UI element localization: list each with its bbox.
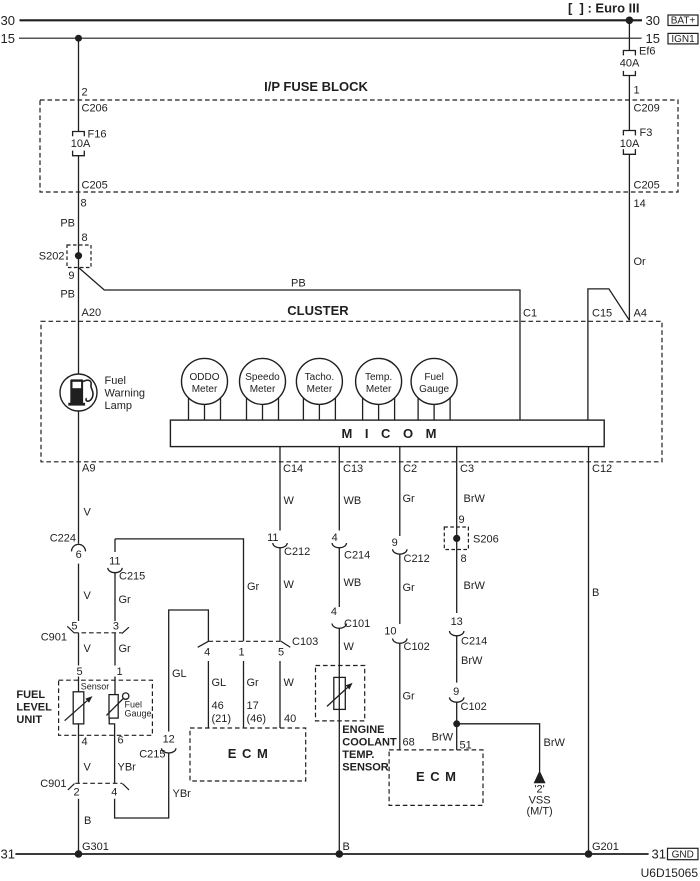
wire Or F3 to A4 (628, 154, 630, 320)
svg-text:A4: A4 (634, 308, 647, 320)
svg-text:U6D15065: U6D15065 (641, 866, 699, 880)
svg-text:Ef6: Ef6 (639, 46, 656, 58)
svg-text:Gr: Gr (119, 643, 132, 655)
svg-text:C1: C1 (523, 308, 537, 320)
svg-text:15: 15 (646, 31, 660, 46)
fuel level unit box (59, 680, 153, 735)
svg-text:GL: GL (172, 668, 187, 680)
svg-text:W: W (284, 579, 295, 591)
svg-text:3: 3 (113, 621, 119, 633)
svg-text:Gr: Gr (119, 594, 132, 606)
svg-text:10A: 10A (71, 138, 91, 150)
fuel warning lamp (60, 374, 97, 411)
meter ODDO (182, 358, 228, 404)
svg-text:C212: C212 (284, 546, 310, 558)
MICOM box (170, 420, 604, 447)
svg-text:(21): (21) (212, 713, 232, 725)
svg-text:C215: C215 (119, 571, 145, 583)
wire Ef6 to F3 (628, 76, 630, 131)
svg-text:F3: F3 (640, 127, 653, 139)
svg-text:Gr: Gr (247, 677, 260, 689)
terminal IGN1 (668, 33, 698, 44)
svg-text:C214: C214 (461, 636, 487, 648)
svg-text:C101: C101 (344, 618, 370, 630)
svg-text:VSS: VSS (529, 795, 551, 807)
node on bus 30 (626, 17, 634, 25)
svg-text:PB: PB (60, 218, 75, 230)
svg-text:C209: C209 (634, 103, 660, 115)
svg-text:BrW: BrW (461, 655, 483, 667)
svg-text:30: 30 (1, 13, 15, 28)
node on bus 15 (75, 35, 82, 42)
svg-text:31: 31 (1, 847, 15, 862)
svg-text:1: 1 (238, 646, 244, 658)
svg-text:C224: C224 (50, 532, 76, 544)
svg-text:5: 5 (76, 666, 82, 678)
terminal GND (668, 848, 699, 859)
svg-text:Or: Or (634, 256, 647, 268)
bus 15 (19, 37, 642, 39)
wire A4 to C15 to MICOM (588, 289, 630, 420)
svg-text:9: 9 (459, 514, 465, 526)
svg-text:C205: C205 (634, 180, 660, 192)
svg-text:C102: C102 (461, 701, 487, 713)
svg-text:Temp.: Temp. (365, 372, 392, 383)
svg-text:40: 40 (284, 713, 296, 725)
node G301 (75, 850, 83, 858)
svg-text:17: 17 (247, 700, 259, 712)
svg-text:C215: C215 (139, 749, 165, 761)
I/P fuse block box (40, 100, 678, 192)
svg-text:30: 30 (646, 13, 660, 28)
svg-text:10: 10 (384, 625, 396, 637)
svg-text:Gauge: Gauge (125, 709, 152, 719)
svg-text:V: V (84, 762, 92, 774)
svg-text:8: 8 (81, 198, 87, 210)
svg-text:Fuel: Fuel (105, 375, 126, 387)
svg-text:C901: C901 (41, 632, 67, 644)
node G201 (585, 850, 593, 858)
svg-text:V: V (84, 507, 92, 519)
svg-text:YBr: YBr (173, 788, 192, 800)
svg-text:C13: C13 (343, 463, 363, 475)
meter legs (189, 398, 451, 420)
wire F16 to A20 (78, 156, 80, 374)
connector C901 bottom (75, 782, 122, 784)
svg-text:A9: A9 (82, 463, 95, 475)
wire IGN1 to F16 (78, 38, 80, 131)
wire Gr into ECM pin 17 (243, 661, 245, 728)
wire C12/B MICOM to G201 (588, 447, 590, 854)
svg-text:Tacho.: Tacho. (305, 372, 334, 383)
wire Gr C215 to C103 pin1 (114, 539, 116, 695)
svg-text:LEVEL: LEVEL (16, 702, 52, 714)
svg-text:Gauge: Gauge (419, 384, 449, 395)
svg-text:4: 4 (204, 646, 210, 658)
svg-text:IGN1: IGN1 (671, 34, 695, 45)
svg-text:C205: C205 (82, 180, 108, 192)
splice S206 (444, 527, 468, 550)
svg-text:WB: WB (344, 577, 362, 589)
svg-text:S202: S202 (39, 251, 65, 263)
meter Temp (356, 358, 402, 404)
svg-text:C212: C212 (404, 553, 430, 565)
svg-text:1: 1 (116, 666, 122, 678)
svg-text:9: 9 (453, 686, 459, 698)
svg-text:Gr: Gr (403, 582, 416, 594)
svg-text:11: 11 (109, 555, 120, 567)
svg-text:BrW: BrW (432, 731, 454, 743)
svg-text:Warning: Warning (105, 388, 146, 400)
svg-text:ODDO: ODDO (190, 372, 220, 383)
svg-text:6: 6 (118, 735, 124, 747)
svg-text:W: W (284, 495, 295, 507)
svg-text:C12: C12 (592, 463, 612, 475)
svg-text:Gr: Gr (247, 581, 260, 593)
ECT sensor box (316, 666, 365, 721)
svg-text:V: V (84, 590, 92, 602)
bus 30 (20, 19, 643, 21)
wire A9/V lamp to sensor (78, 411, 80, 692)
svg-text:GL: GL (212, 677, 227, 689)
ECM box left (190, 728, 306, 781)
svg-text:E C M: E C M (416, 769, 456, 784)
connector C901 top (74, 632, 122, 634)
svg-text:FUEL: FUEL (16, 689, 45, 701)
svg-text:Meter: Meter (250, 384, 276, 395)
svg-text:C2: C2 (403, 463, 417, 475)
svg-text:Meter: Meter (366, 384, 392, 395)
svg-text:C206: C206 (82, 103, 108, 115)
wire PB branch to C1 (79, 268, 521, 421)
ECM box right (389, 750, 483, 806)
svg-text:11: 11 (267, 532, 278, 544)
svg-text:9: 9 (392, 537, 398, 549)
svg-text:1: 1 (634, 85, 640, 97)
svg-text:13: 13 (451, 616, 463, 628)
svg-text:Gr: Gr (403, 493, 416, 505)
svg-text:F16: F16 (88, 129, 107, 141)
svg-text:C15: C15 (592, 308, 612, 320)
wire C2/Gr MICOM to ECM pin 68 (399, 447, 401, 750)
svg-text:2: 2 (82, 87, 88, 99)
svg-text:PB: PB (291, 278, 306, 290)
svg-text:8: 8 (82, 232, 88, 244)
svg-text:2: 2 (73, 787, 79, 799)
svg-text:C214: C214 (344, 550, 370, 562)
wire C14/W MICOM to ECM pin 40 (279, 447, 281, 728)
svg-text:8: 8 (461, 553, 467, 565)
svg-text:31: 31 (652, 847, 666, 862)
svg-text:C901: C901 (40, 778, 66, 790)
svg-text:Sensor: Sensor (81, 681, 110, 691)
svg-text:4: 4 (332, 532, 338, 544)
wire GL C103 pin4 to C215-12 (169, 610, 209, 732)
svg-text:V: V (84, 643, 92, 655)
svg-text:BrW: BrW (464, 580, 486, 592)
svg-text:46: 46 (212, 700, 224, 712)
splice S202 (67, 245, 91, 268)
svg-text:G301: G301 (82, 841, 109, 853)
svg-text:UNIT: UNIT (16, 714, 42, 726)
svg-text:Lamp: Lamp (105, 400, 133, 412)
svg-text:ENGINE: ENGINE (342, 724, 384, 736)
svg-text:YBr: YBr (118, 762, 137, 774)
svg-text:PB: PB (60, 289, 75, 301)
fuel gauge symbol (109, 695, 118, 719)
svg-text:5: 5 (278, 646, 284, 658)
svg-text:A20: A20 (82, 307, 102, 319)
cluster box (41, 321, 662, 462)
sensor resistor (73, 692, 84, 724)
svg-text:E C M: E C M (228, 746, 268, 761)
bus 31 (15, 853, 648, 855)
svg-text:6: 6 (76, 549, 82, 561)
svg-text:Meter: Meter (192, 384, 218, 395)
wire C3/BrW MICOM to ECM pin 51 (456, 447, 458, 750)
svg-text:B: B (84, 815, 91, 827)
svg-text:C102: C102 (404, 641, 430, 653)
svg-text:B: B (592, 587, 599, 599)
svg-text:(46): (46) (247, 713, 267, 725)
svg-text:W: W (344, 641, 355, 653)
svg-text:40A: 40A (620, 58, 640, 70)
svg-text:B: B (343, 841, 350, 853)
svg-text:68: 68 (403, 736, 415, 748)
connector C103 (208, 640, 281, 642)
wire YBr U-link gauge to C215-12 (109, 718, 169, 818)
svg-text:BrW: BrW (464, 493, 486, 505)
wire BrW to VSS (457, 724, 540, 772)
svg-text:G201: G201 (592, 841, 619, 853)
svg-text:I/P FUSE BLOCK: I/P FUSE BLOCK (264, 79, 368, 94)
node B/ECT ground (336, 850, 344, 858)
meter Speedo (240, 358, 286, 404)
svg-text:BrW: BrW (544, 737, 566, 749)
svg-text:CLUSTER: CLUSTER (287, 303, 349, 318)
svg-text:Meter: Meter (307, 384, 333, 395)
svg-text:[ ] : Euro III: [ ] : Euro III (568, 1, 640, 16)
svg-text:10A: 10A (620, 138, 640, 150)
svg-text:Gr: Gr (403, 691, 416, 703)
meter Tacho (296, 358, 342, 404)
terminal BAT+ (668, 15, 698, 26)
svg-text:(M/T): (M/T) (526, 806, 552, 818)
svg-text:COOLANT: COOLANT (342, 737, 397, 749)
svg-text:S206: S206 (473, 533, 499, 545)
fuse F3 10A (623, 131, 635, 155)
svg-text:4: 4 (331, 606, 337, 618)
svg-text:9: 9 (68, 270, 74, 282)
svg-text:C3: C3 (460, 463, 474, 475)
svg-text:BAT+: BAT+ (671, 16, 696, 27)
svg-text:TEMP.: TEMP. (342, 749, 374, 761)
svg-text:SENSOR: SENSOR (342, 761, 389, 773)
wire V sensor to G301 (78, 724, 80, 854)
meter Fuel Gauge (411, 358, 457, 404)
svg-text:4: 4 (82, 736, 88, 748)
wire BAT+ to Ef6 (628, 20, 630, 50)
svg-text:4: 4 (111, 787, 117, 799)
svg-text:Fuel: Fuel (424, 372, 443, 383)
svg-text:WB: WB (344, 495, 362, 507)
svg-text:C14: C14 (283, 463, 303, 475)
wire GL into ECM pin 46 (207, 661, 209, 728)
node BrW junction (453, 720, 460, 727)
svg-text:15: 15 (1, 31, 15, 46)
svg-text:14: 14 (634, 198, 646, 210)
wire C13/WB MICOM to ECT sensor to ground (338, 447, 340, 854)
fuse F16 10A (73, 132, 85, 156)
svg-text:GND: GND (672, 849, 694, 860)
svg-text:W: W (284, 677, 295, 689)
svg-text:Speedo: Speedo (245, 372, 280, 383)
fuse Ef6 40A (623, 51, 635, 76)
svg-text:12: 12 (163, 733, 175, 745)
svg-text:C103: C103 (292, 636, 318, 648)
